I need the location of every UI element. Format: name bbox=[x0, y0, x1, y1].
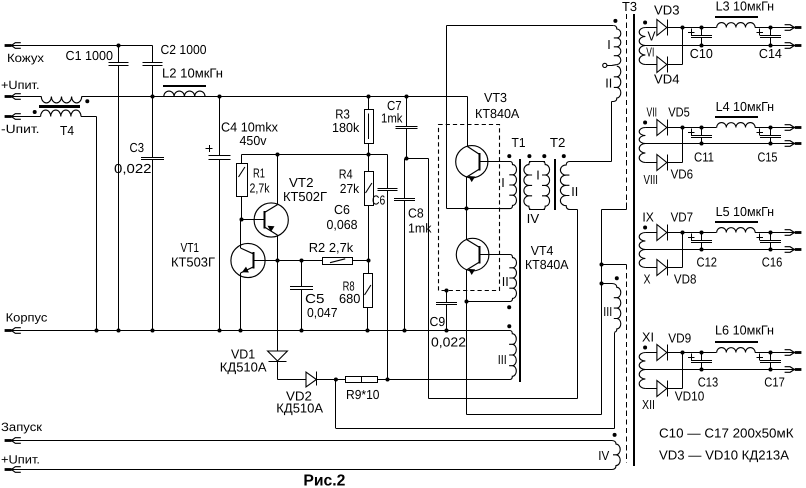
svg-text:V: V bbox=[648, 29, 656, 44]
connector: +Uпит bottom input arrow bbox=[5, 468, 12, 471]
capacitor C6 bbox=[378, 188, 398, 190]
wire: rectified top V bbox=[645, 27, 657, 29]
junction: C1 bottom on ground rail bbox=[117, 329, 121, 333]
wire: tap to T3 winding III bbox=[602, 283, 613, 285]
inductor L4 bbox=[717, 123, 755, 128]
connector: +Uпит input arrow bbox=[5, 95, 12, 98]
wire: VT4 collector from node bbox=[466, 209, 468, 240]
plus sign C4 bbox=[206, 148, 213, 150]
wire: middle link top bbox=[529, 161, 545, 163]
diode VD2 KD510A bbox=[306, 372, 316, 387]
wire: VD6 riser bbox=[682, 128, 684, 163]
svg-text:VD10: VD10 bbox=[675, 389, 705, 404]
wire: W2 horizontal bbox=[467, 414, 602, 416]
transformer T4 core bbox=[39, 105, 80, 108]
svg-text:II: II bbox=[571, 184, 578, 199]
junction: C5 top node bbox=[300, 259, 304, 263]
wire: VD4 riser bbox=[682, 28, 684, 65]
svg-text:VD5: VD5 bbox=[668, 104, 690, 119]
diode VD1 KD510A bbox=[268, 351, 288, 361]
wire: rectified bottom VI bbox=[645, 64, 657, 66]
svg-text:R9*10: R9*10 bbox=[346, 387, 380, 402]
inductor L4 core bar bbox=[715, 116, 758, 118]
plus sign C17 bbox=[756, 357, 763, 359]
svg-text:1mk: 1mk bbox=[381, 111, 403, 126]
wire: VD9 to junction bbox=[667, 352, 701, 354]
svg-text:C3: C3 bbox=[130, 140, 145, 155]
wire: common tap line bbox=[645, 143, 795, 145]
diode VD7 bbox=[657, 225, 667, 241]
diode VD6 bbox=[657, 155, 667, 171]
capacitor C17 bbox=[770, 353, 772, 361]
wire: R9 line to T1 winding III bbox=[388, 379, 511, 381]
junction: VT2 base node bbox=[240, 218, 244, 222]
wire: Запуск line bbox=[12, 440, 612, 442]
connector: output arrow top L5 bbox=[795, 231, 802, 234]
diode VD5 bbox=[657, 120, 667, 136]
svg-text:0,047: 0,047 bbox=[307, 305, 338, 320]
diode VD8 bbox=[657, 260, 667, 276]
junction: C14 top bbox=[769, 26, 773, 30]
wire: R9 node up to ground rail bbox=[387, 331, 389, 380]
connector: -Uпит input arrow bbox=[5, 115, 12, 118]
connector: output arrow bottom L5 bbox=[795, 248, 802, 251]
wire: VT1 emitter to ground rail bbox=[240, 273, 242, 331]
svg-text:X: X bbox=[644, 272, 651, 287]
capacitor C1 bbox=[118, 46, 120, 63]
svg-text:C10: C10 bbox=[690, 46, 713, 61]
junction: VT1 emitter on ground rail bbox=[239, 329, 243, 333]
svg-text:I: I bbox=[536, 167, 540, 182]
transformer T4 winding b bbox=[41, 110, 81, 116]
wire: W3 down from VD2 node bbox=[335, 380, 337, 429]
wire: VT4 base line bbox=[479, 254, 510, 256]
transformer T1 core bbox=[519, 159, 521, 382]
plus sign C16 bbox=[756, 237, 763, 239]
dashed box around VT3 VT4 bbox=[439, 125, 500, 291]
transistor VT4 KT840A bbox=[456, 238, 489, 271]
junction: C2 bottom on +U rail bbox=[151, 95, 155, 99]
svg-text:Запуск: Запуск bbox=[1, 420, 43, 434]
svg-text:180k: 180k bbox=[332, 120, 360, 135]
wire: VD1 to VD2 bbox=[278, 379, 307, 381]
svg-text:C17: C17 bbox=[764, 374, 785, 389]
svg-text:L6 10мкГн: L6 10мкГн bbox=[715, 323, 774, 338]
junction: C1 top bbox=[117, 44, 121, 48]
junction: C13 bottom bbox=[700, 368, 704, 372]
junction: C11 bottom bbox=[700, 142, 704, 146]
connector: Кожух input arrow bbox=[5, 44, 12, 47]
wire: +U from arrow to T4 bbox=[12, 96, 42, 98]
wire: rectified top IX bbox=[645, 232, 657, 234]
wire: VT2 collector to node A bbox=[277, 155, 279, 205]
junction: VT1 base node bbox=[276, 259, 280, 263]
transformer T1 winding II bbox=[467, 255, 517, 302]
resistor R2 bbox=[323, 258, 353, 265]
transistor VT3 KT840A bbox=[456, 146, 488, 178]
wire: VT4 emitter down bbox=[466, 270, 468, 302]
junction: rectifier node VD3VD4 bbox=[681, 26, 685, 30]
svg-text:2,7k: 2,7k bbox=[250, 181, 270, 196]
junction: C5 bottom on ground rail bbox=[300, 329, 304, 333]
svg-text:КД510А: КД510А bbox=[220, 360, 267, 375]
wire: inductor to C16 bbox=[755, 232, 795, 234]
svg-text:VIII: VIII bbox=[644, 172, 659, 187]
svg-text:L2 10мкГн: L2 10мкГн bbox=[162, 65, 223, 80]
capacitor C15 bbox=[770, 128, 772, 136]
junction: R3 top on +U rail bbox=[367, 95, 371, 99]
plus sign C12 bbox=[688, 237, 695, 239]
svg-text:Корпус: Корпус bbox=[6, 310, 48, 324]
svg-text:C16: C16 bbox=[762, 255, 783, 270]
svg-text:VD3 — VD10 КД213А: VD3 — VD10 КД213А bbox=[659, 448, 789, 463]
transformer T3 winding I bbox=[613, 26, 621, 65]
junction: C10 top bbox=[700, 26, 704, 30]
connector: output arrow top L4 bbox=[795, 126, 802, 129]
junction: rectifier node VD7VD8 bbox=[681, 231, 685, 235]
polarity dot T3 winding IX bbox=[643, 226, 647, 230]
wire: tap to lower screen bbox=[602, 264, 627, 266]
wire: rectified bottom VIII bbox=[645, 162, 657, 164]
transformer T3 winding IX bbox=[639, 233, 645, 250]
transformer T3 winding X bbox=[639, 250, 645, 268]
wire: rectified top XI bbox=[645, 352, 657, 354]
svg-text:VD9: VD9 bbox=[668, 331, 691, 346]
transistor VT2 KT502G bbox=[254, 203, 288, 237]
wire: VT3 base line bbox=[479, 161, 510, 163]
transformer T1 winding IV bbox=[524, 162, 532, 210]
junction: C10 bottom bbox=[700, 44, 704, 48]
svg-text:C1 1000: C1 1000 bbox=[66, 48, 114, 63]
inductor L3 bbox=[717, 23, 755, 28]
svg-text:КТ840А: КТ840А bbox=[475, 106, 520, 121]
tap circle T3 bbox=[612, 64, 617, 67]
transistor VT1 KT503G bbox=[231, 243, 265, 277]
svg-text:C11: C11 bbox=[694, 150, 714, 165]
wire: VD6 to riser bbox=[667, 162, 682, 164]
transformer T2 winding I bbox=[542, 162, 550, 210]
polarity dot T4 winding a bbox=[85, 99, 89, 103]
wire: -U from arrow to T4 bbox=[12, 116, 41, 118]
plus sign C10 bbox=[688, 32, 695, 34]
resistor R1 bbox=[241, 155, 243, 164]
wire: VD8 to riser bbox=[667, 267, 682, 269]
wire: VD5 to junction bbox=[667, 127, 701, 129]
svg-text:VD6: VD6 bbox=[671, 167, 694, 182]
svg-text:R1: R1 bbox=[253, 165, 265, 180]
svg-text:C10 — C17 200х50мК: C10 — C17 200х50мК bbox=[659, 426, 794, 441]
transformer T3 screen upper bbox=[626, 14, 628, 203]
junction: C7 top on +U rail bbox=[405, 95, 409, 99]
polarity dot T3 winding I bbox=[613, 19, 617, 23]
svg-text:КТ840А: КТ840А bbox=[525, 257, 569, 272]
wire: VD4 to riser bbox=[667, 64, 682, 66]
wire: left vertical to ground rail bbox=[96, 117, 98, 331]
resistor R9*10 bbox=[336, 379, 346, 381]
junction: C16 top bbox=[769, 231, 773, 235]
inductor L6 bbox=[717, 348, 755, 353]
diode VD4 bbox=[657, 57, 667, 73]
svg-text:III: III bbox=[603, 304, 612, 319]
svg-text:C15: C15 bbox=[758, 150, 778, 165]
plus sign C11 bbox=[688, 132, 695, 134]
capacitor C3 bbox=[152, 97, 154, 158]
capacitor C10 bbox=[701, 28, 703, 36]
wire: inductor to C14 bbox=[755, 27, 795, 29]
capacitor C5 bbox=[301, 261, 303, 287]
svg-text:I: I bbox=[501, 175, 505, 190]
svg-text:КТ502Г: КТ502Г bbox=[283, 189, 327, 204]
wire: W1 up to T2 II bottom bbox=[577, 210, 579, 399]
polarity dot T3 winding IV bbox=[613, 433, 617, 437]
svg-text:L3 10мкГн: L3 10мкГн bbox=[716, 0, 775, 13]
transformer T3 winding VII bbox=[639, 128, 645, 144]
capacitor C8 bbox=[404, 159, 406, 199]
svg-text:C9: C9 bbox=[430, 314, 446, 329]
wire: bottom +U line bbox=[12, 469, 612, 471]
wire: Кожух rail bbox=[12, 45, 153, 47]
svg-text:-Uпит.: -Uпит. bbox=[1, 122, 40, 136]
svg-text:Рис.2: Рис.2 bbox=[303, 472, 345, 488]
wire: top line to inductor bbox=[702, 127, 717, 129]
wire: VT1 base node down to VD1 bbox=[277, 261, 279, 352]
wire: top line to inductor bbox=[702, 232, 717, 234]
svg-text:C14: C14 bbox=[759, 46, 782, 61]
junction: C12 bottom bbox=[700, 248, 704, 252]
junction: C4 top on +U rail bbox=[218, 95, 222, 99]
junction: rectifier node VD5VD6 bbox=[681, 126, 685, 130]
svg-text:T1: T1 bbox=[512, 135, 526, 150]
junction: VT3 emitter node bbox=[465, 207, 469, 211]
polarity dot T3 winding XI bbox=[643, 346, 647, 350]
diode VD9 bbox=[657, 345, 667, 361]
wire: rectified top VII bbox=[645, 127, 657, 129]
capacitor C12 bbox=[701, 233, 703, 241]
wire: C7C8 node to W1 bbox=[407, 158, 429, 160]
connector: Запуск input arrow bbox=[5, 439, 12, 442]
svg-text:R4: R4 bbox=[339, 166, 353, 181]
plus sign C14 bbox=[756, 32, 763, 34]
transformer T2 winding II bbox=[560, 162, 611, 210]
svg-text:T4: T4 bbox=[60, 123, 74, 138]
svg-text:VII: VII bbox=[647, 104, 658, 119]
svg-text:T3: T3 bbox=[622, 0, 637, 14]
junction: C9 top on dashed box edge bbox=[445, 289, 449, 293]
capacitor C2 bbox=[152, 46, 154, 63]
transformer T3 winding XII bbox=[639, 370, 645, 389]
svg-text:C6: C6 bbox=[372, 193, 385, 208]
junction: C15 bottom bbox=[769, 142, 773, 146]
svg-text:VT1: VT1 bbox=[181, 240, 200, 255]
connector: output arrow bottom L3 bbox=[795, 44, 802, 47]
junction: VT4 emitter / T1 II bottom bbox=[465, 300, 469, 304]
connector: output arrow bottom L6 bbox=[795, 368, 802, 371]
wire: emitter node corner bbox=[447, 208, 467, 210]
svg-text:VT4: VT4 bbox=[531, 243, 554, 258]
junction: C7-C8 node bbox=[405, 157, 409, 161]
wire: VT1 base lead bbox=[254, 260, 278, 262]
resistor R3 bbox=[368, 97, 370, 110]
svg-text:XII: XII bbox=[642, 397, 655, 412]
wire: W3 up to T3 winding III bbox=[614, 332, 616, 428]
svg-text:R2 2,7k: R2 2,7k bbox=[309, 240, 354, 255]
transformer T3 screen lower bbox=[626, 265, 628, 464]
junction: C11 top bbox=[700, 126, 704, 130]
resistor R8 bbox=[368, 261, 370, 274]
junction: C3 bottom on ground rail bbox=[151, 329, 155, 333]
transformer T2 core bbox=[554, 159, 556, 210]
svg-text:C8: C8 bbox=[408, 206, 424, 221]
inductor L3 core bar bbox=[715, 16, 758, 18]
svg-text:27k: 27k bbox=[340, 181, 360, 196]
junction: C17 bottom bbox=[769, 368, 773, 372]
svg-text:II: II bbox=[502, 274, 509, 289]
wire: W3 horizontal bbox=[336, 428, 615, 430]
wire: T3 winding II bottom down bbox=[611, 101, 613, 161]
transformer T1 winding III bbox=[509, 331, 516, 380]
wire: node A horizontal bbox=[242, 154, 388, 156]
svg-text:L4 10мкГн: L4 10мкГн bbox=[716, 99, 775, 114]
junction: C8 bottom on ground rail bbox=[403, 329, 407, 333]
wire: VT1 collector to VT2 base bbox=[240, 220, 242, 249]
svg-text:VT2: VT2 bbox=[289, 175, 314, 190]
wire: Корпус ground rail bbox=[12, 330, 509, 332]
svg-text:IV: IV bbox=[598, 448, 609, 463]
polarity dot T3 winding VII bbox=[643, 121, 647, 125]
inductor L5 bbox=[717, 228, 755, 233]
capacitor C13 bbox=[701, 353, 703, 361]
capacitor C9 bbox=[446, 291, 448, 303]
transformer T3 winding VI bbox=[639, 46, 645, 65]
svg-text:IX: IX bbox=[642, 210, 654, 225]
junction: C17 top bbox=[769, 351, 773, 355]
connector: output arrow top L6 bbox=[795, 351, 802, 354]
svg-text:II: II bbox=[605, 75, 612, 90]
polarity dot T3 winding V bbox=[643, 21, 647, 25]
wire: common tap line bbox=[645, 45, 795, 47]
junction: T3 winding III tap bbox=[600, 282, 604, 286]
inductor L6 core bar bbox=[715, 341, 758, 343]
junction: C9 bottom on ground rail bbox=[445, 329, 449, 333]
transformer T1 winding I bbox=[500, 162, 517, 209]
svg-text:VI: VI bbox=[646, 45, 654, 60]
svg-text:C12: C12 bbox=[697, 255, 718, 270]
svg-text:КД510А: КД510А bbox=[276, 401, 323, 416]
transformer T3 winding IV bbox=[612, 441, 620, 470]
junction: R2-R4-R8 node bbox=[367, 259, 371, 263]
wire: node A drop to C6 bbox=[387, 155, 389, 189]
connector: Корпус input arrow bbox=[5, 329, 12, 332]
polarity dot T2 winding II bbox=[562, 154, 566, 158]
wire: VT2 emitter to VT1 base node bbox=[277, 235, 279, 260]
inductor L2 core bar bbox=[163, 85, 206, 87]
svg-text:I: I bbox=[607, 37, 611, 52]
polarity dot T1 winding II bbox=[507, 305, 511, 309]
svg-text:C6: C6 bbox=[334, 202, 350, 217]
junction: R9 right node bbox=[386, 378, 390, 382]
wire: T4 b to left vertical bbox=[81, 116, 97, 118]
wire: emitter node to T1 winding I bbox=[467, 208, 501, 210]
polarity dot T3 winding III bbox=[615, 276, 619, 280]
junction: R3 bottom on node A bbox=[367, 153, 371, 157]
diode VD10 bbox=[657, 381, 667, 397]
transformer T4 winding a bbox=[41, 97, 81, 103]
svg-text:680: 680 bbox=[339, 291, 360, 306]
wire: W2 screen ground vertical bbox=[601, 210, 603, 415]
transformer T3 winding II bbox=[612, 66, 621, 101]
svg-text:VD4: VD4 bbox=[654, 71, 680, 86]
svg-text:VD8: VD8 bbox=[674, 272, 697, 287]
wire: top line to inductor bbox=[702, 352, 717, 354]
wire: middle link bottom bbox=[529, 209, 545, 211]
wire: VD3 to junction bbox=[667, 27, 701, 29]
wire: top line to inductor bbox=[702, 27, 717, 29]
svg-text:0,022: 0,022 bbox=[431, 335, 466, 350]
wire: W1 from C7C8 node down bbox=[428, 159, 430, 399]
junction: C13 top bbox=[700, 351, 704, 355]
connector: output arrow top L3 bbox=[795, 26, 802, 29]
wire: common tap line bbox=[645, 369, 795, 371]
capacitor C14 bbox=[770, 28, 772, 36]
inductor L5 core bar bbox=[715, 221, 758, 223]
diode VD3 bbox=[657, 20, 667, 36]
svg-text:XI: XI bbox=[642, 330, 654, 345]
polarity dot T1 winding III bbox=[507, 324, 511, 328]
junction: lower screen tap bbox=[600, 263, 604, 267]
wire: rectified bottom X bbox=[645, 267, 657, 269]
wire: T3 line down to emitter node bbox=[446, 26, 448, 209]
wire: base node to R2 bbox=[278, 260, 323, 262]
svg-text:КТ503Г: КТ503Г bbox=[171, 255, 215, 270]
svg-text:+Uпит.: +Uпит. bbox=[1, 78, 40, 92]
junction: C15 top bbox=[769, 126, 773, 130]
wire: VT3 emitter down bbox=[466, 177, 468, 208]
svg-text:IV: IV bbox=[527, 211, 540, 226]
svg-text:+Uпит.: +Uпит. bbox=[1, 453, 40, 467]
svg-text:III: III bbox=[498, 352, 507, 367]
junction: R8 bottom on ground rail bbox=[366, 329, 370, 333]
junction: VT2 collector on node A bbox=[276, 153, 280, 157]
wire: VD8 riser bbox=[682, 233, 684, 268]
transformer T3 winding VIII bbox=[639, 144, 645, 163]
wire: rectified bottom XII bbox=[645, 388, 657, 390]
svg-text:Кожух: Кожух bbox=[7, 51, 44, 65]
inductor L2 bbox=[164, 91, 205, 96]
wire: VT4 emitter to W2 bbox=[466, 302, 468, 415]
capacitor C4 electrolytic bbox=[219, 97, 221, 156]
wire: screen ground to upper screen bbox=[602, 209, 627, 211]
junction: C14 bottom bbox=[769, 44, 773, 48]
svg-text:T2: T2 bbox=[550, 135, 566, 150]
junction: C4 bottom on ground rail bbox=[218, 329, 222, 333]
polarity dot T1 winding IV bbox=[527, 154, 531, 158]
plus sign C15 bbox=[756, 132, 763, 134]
svg-text:0,068: 0,068 bbox=[327, 217, 358, 232]
wire: VT2 base lead bbox=[242, 219, 265, 221]
wire: common tap line bbox=[645, 249, 795, 251]
plus sign C13 bbox=[688, 357, 695, 359]
wire: T3 primary top line bbox=[447, 25, 614, 27]
wire: VD7 to junction bbox=[667, 232, 701, 234]
capacitor C7 bbox=[406, 97, 408, 127]
wire: +U rail across bbox=[82, 96, 468, 98]
junction: C12 top bbox=[700, 231, 704, 235]
transformer T3 winding XI bbox=[639, 353, 645, 370]
transformer T3 winding V bbox=[639, 28, 645, 46]
polarity dot T1 winding I bbox=[507, 154, 511, 158]
wire: inductor to C17 bbox=[755, 352, 795, 354]
svg-text:VD7: VD7 bbox=[671, 210, 694, 225]
